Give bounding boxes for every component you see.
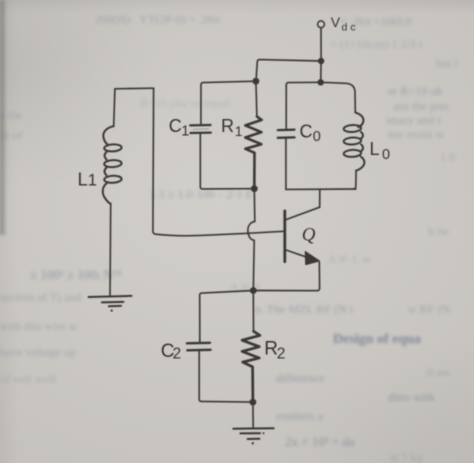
inductor L1 (103, 126, 122, 204)
capacitor C0 (278, 130, 295, 138)
wire L1 bottom lead (109, 204, 112, 296)
wire emitter rail (200, 291, 317, 343)
wire C1 bottom lead (200, 134, 254, 189)
emitter arrow (305, 252, 319, 265)
svg-text:0: 0 (313, 129, 321, 145)
wire center with hop (248, 189, 255, 291)
resistor R1 (256, 81, 257, 116)
ground bottom (233, 428, 273, 439)
node J1b (318, 79, 324, 85)
svg-text:C: C (300, 122, 313, 142)
wire C0 bottom lead (285, 139, 287, 190)
svg-text:2: 2 (173, 346, 182, 363)
inductor L0 (344, 112, 365, 170)
svg-text:1: 1 (235, 123, 243, 139)
terminal Vdc (318, 21, 325, 28)
node J2 (253, 78, 260, 85)
wire Vdc to tank top (320, 61, 322, 82)
wire C1/R1 top rail (201, 81, 256, 124)
svg-text:L: L (78, 169, 88, 190)
svg-text:R: R (221, 116, 234, 136)
ground left (89, 296, 132, 306)
wire collector tap (285, 189, 320, 220)
node J5 (250, 399, 257, 406)
wire base (156, 231, 285, 236)
svg-text:1: 1 (88, 172, 97, 190)
svg-text:C: C (169, 116, 182, 136)
svg-text:0: 0 (382, 147, 390, 163)
capacitor C2 (187, 343, 211, 351)
wire L1 top lead (114, 89, 115, 126)
node J4 (250, 287, 257, 294)
wire C2 bottom lead (199, 351, 253, 402)
capacitor C1 (190, 125, 211, 133)
node J1 (318, 58, 324, 64)
wire Vdc stem (320, 28, 322, 61)
transistor Q bar (283, 211, 286, 262)
wire to ground (252, 402, 254, 428)
wire tank top rail right to L0 (321, 82, 356, 112)
wire left branch top rail (115, 87, 154, 90)
wire base link vertical (153, 88, 156, 234)
resistor R2 (242, 331, 260, 402)
svg-text:Q: Q (302, 225, 316, 246)
svg-text:L: L (370, 139, 380, 159)
wire emitter diagonal (285, 250, 309, 258)
wire emitter down (317, 262, 320, 291)
wire tank bottom rail (286, 188, 356, 190)
node J3 (251, 185, 258, 192)
wire top rail to R1/C1 branch (256, 60, 321, 80)
wire tank top rail left to C0 (286, 82, 321, 129)
svg-text:2: 2 (277, 346, 286, 363)
ghost text layer (95, 12, 220, 27)
svg-text:V: V (331, 14, 341, 30)
svg-text:dc: dc (342, 21, 359, 33)
wire L0 bottom lead (354, 171, 357, 189)
svg-text:1: 1 (181, 123, 189, 139)
wire J4 to R2 (252, 291, 254, 332)
